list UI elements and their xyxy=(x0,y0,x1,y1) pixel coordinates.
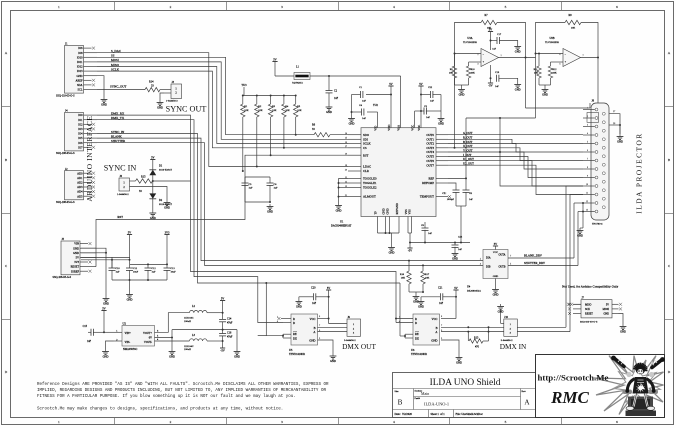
svg-text:D: D xyxy=(668,370,671,374)
svg-text:5V: 5V xyxy=(489,28,492,31)
svg-text:GND: GND xyxy=(330,360,336,363)
svg-text:1uF: 1uF xyxy=(152,271,157,274)
logo starburst xyxy=(594,356,664,415)
svg-text:12: 12 xyxy=(586,201,588,203)
svg-text:6: 6 xyxy=(559,54,561,56)
svg-text:SYNC OUT: SYNC OUT xyxy=(166,105,207,114)
wire ref caps join xyxy=(456,206,466,244)
wire U3A inverting down xyxy=(454,54,456,149)
svg-text:VCC: VCC xyxy=(310,317,316,321)
svg-text:3: 3 xyxy=(587,125,588,127)
svg-text:5V: 5V xyxy=(221,297,224,300)
svg-text:47uF: 47uF xyxy=(227,322,233,325)
svg-text:RE: RE xyxy=(293,332,297,336)
svg-text:GND: GND xyxy=(459,93,465,96)
svg-text:L3: L3 xyxy=(192,334,196,337)
ground C1 C4 xyxy=(348,95,355,126)
svg-text:8: 8 xyxy=(441,316,443,318)
svg-text:1uF: 1uF xyxy=(439,302,444,305)
svg-text:Date: 7/2/2020: Date: 7/2/2020 xyxy=(395,413,413,416)
svg-text:IOREF: IOREF xyxy=(71,270,79,273)
inductor L3 xyxy=(184,334,224,351)
svg-text:7: 7 xyxy=(319,325,321,327)
svg-text:Rev:: Rev: xyxy=(522,390,527,393)
svg-text:B: B xyxy=(398,399,403,407)
svg-text:5V: 5V xyxy=(606,303,609,306)
svg-text:9: 9 xyxy=(587,176,588,178)
svg-text:B: B xyxy=(314,326,316,330)
svg-text:33: 33 xyxy=(139,190,142,193)
svg-text:5: 5 xyxy=(505,420,507,424)
power 5V U5 xyxy=(326,287,331,297)
power 5V U3A xyxy=(488,28,493,50)
wire U2 vout+ xyxy=(155,313,190,333)
x-mark TEMPOUT xyxy=(444,193,451,198)
svg-text:RMC: RMC xyxy=(550,388,589,407)
svg-text:CS: CS xyxy=(363,146,367,150)
svg-text:R5: R5 xyxy=(297,105,301,108)
svg-text:GND: GND xyxy=(267,210,273,213)
svg-text:8: 8 xyxy=(587,167,588,169)
svg-text:REF: REF xyxy=(428,177,434,181)
svg-text:R3: R3 xyxy=(272,105,276,108)
svg-text:IO0: IO0 xyxy=(78,114,83,117)
svg-text:L2: L2 xyxy=(192,305,196,308)
resistor R6 xyxy=(312,124,348,137)
ground D2 xyxy=(152,211,154,214)
svg-text:13: 13 xyxy=(586,210,588,212)
svg-text:TN1783-4: TN1783-4 xyxy=(592,223,603,226)
wire U3B input down xyxy=(466,54,583,187)
svg-text:3V3: 3V3 xyxy=(165,231,170,234)
resistor R1 xyxy=(241,96,249,173)
svg-text:IO7: IO7 xyxy=(78,146,83,149)
power 5V sync in xyxy=(150,159,155,161)
svg-text:D1: D1 xyxy=(159,164,163,167)
svg-text:RESET: RESET xyxy=(71,266,80,269)
svg-text:U3B: U3B xyxy=(549,37,554,40)
capacitor C17 xyxy=(491,33,522,53)
svg-text:VCC: VCC xyxy=(417,125,421,131)
wire U5 RE DE bridge xyxy=(258,334,291,338)
wire pullup rail xyxy=(243,95,296,97)
svg-text:1uF: 1uF xyxy=(428,232,433,235)
ground C22 C3 xyxy=(438,111,445,125)
svg-text:R17: R17 xyxy=(425,273,430,276)
svg-text:OUT4: OUT4 xyxy=(426,150,434,154)
resistor R9 xyxy=(449,54,457,86)
svg-text:DIB: DIB xyxy=(486,266,491,269)
resistor R5 xyxy=(294,96,302,136)
svg-text:R15: R15 xyxy=(141,175,146,178)
diode D1 xyxy=(149,160,172,182)
svg-text:GND: GND xyxy=(349,122,355,125)
svg-text:1uF: 1uF xyxy=(430,100,435,103)
capacitor C4 xyxy=(351,104,378,120)
svg-text:GND: GND xyxy=(164,206,170,209)
ground C5 C6 xyxy=(269,204,271,207)
svg-text:C10: C10 xyxy=(116,267,121,270)
svg-text:10K: 10K xyxy=(272,109,277,112)
svg-text:4: 4 xyxy=(393,5,395,9)
ground for J1 GND pin xyxy=(97,76,107,107)
resistor R12 xyxy=(548,62,557,85)
svg-text:GND: GND xyxy=(438,122,444,125)
svg-text:U1: U1 xyxy=(340,220,344,223)
svg-text:-5V: -5V xyxy=(488,84,492,87)
svg-text:AD2: AD2 xyxy=(77,182,83,185)
svg-text:IO8: IO8 xyxy=(78,52,83,55)
capacitor C12 xyxy=(145,267,157,280)
resistor R8 xyxy=(565,14,581,30)
ground R16 R17 xyxy=(409,291,424,303)
svg-text:C1: C1 xyxy=(359,86,363,89)
svg-text:TU3: TU3 xyxy=(241,84,247,87)
wire U2 0v xyxy=(155,330,176,359)
wire U6 R D feeds xyxy=(395,318,413,323)
svg-text:742792651: 742792651 xyxy=(292,82,304,85)
svg-text:7: 7 xyxy=(441,325,443,327)
svg-text:R: R xyxy=(293,317,295,321)
svg-text:GND: GND xyxy=(456,361,462,364)
svg-text:R2: R2 xyxy=(258,105,262,108)
svg-text:GND: GND xyxy=(73,252,79,255)
ground J5 gnd xyxy=(81,248,109,305)
wire R7 feedback xyxy=(455,23,482,54)
svg-text:GND: GND xyxy=(603,313,609,316)
svg-text:J8: J8 xyxy=(592,100,595,103)
svg-text:1-844456-2: 1-844456-2 xyxy=(117,193,129,196)
wire U3A out to connector xyxy=(526,58,591,109)
svg-text:U5: U5 xyxy=(289,349,293,352)
wire dmx riser 1 xyxy=(566,186,583,327)
svg-text:7: 7 xyxy=(510,256,512,258)
connector J9 DMX OUT jack xyxy=(347,319,361,336)
power 5V feed U2 xyxy=(101,307,113,332)
power module U2 xyxy=(122,326,155,347)
svg-text:C20: C20 xyxy=(311,287,316,290)
svg-text:3: 3 xyxy=(477,64,479,66)
svg-text:J7: J7 xyxy=(582,297,585,300)
svg-text:VCC: VCC xyxy=(493,251,498,254)
svg-text:A: A xyxy=(524,399,530,407)
ground for J3 xyxy=(159,100,161,103)
svg-text:1uF: 1uF xyxy=(334,97,339,100)
svg-text:19: 19 xyxy=(345,154,347,156)
svg-text:DZ2680452A: DZ2680452A xyxy=(467,289,481,292)
capacitor C1 xyxy=(352,86,392,102)
svg-text:OUT7: OUT7 xyxy=(426,163,434,167)
capacitor C15 xyxy=(83,325,105,343)
svg-text:C11: C11 xyxy=(133,267,138,270)
wire U3A output xyxy=(499,57,536,59)
wire U6 RE DE bridge xyxy=(400,283,413,338)
svg-text:2: 2 xyxy=(170,420,172,424)
svg-text:U2: U2 xyxy=(123,323,127,326)
wire U6 A xyxy=(441,331,570,333)
driver U4 xyxy=(483,250,508,279)
capacitor C11 xyxy=(126,267,139,280)
svg-text:3V3: 3V3 xyxy=(74,261,79,264)
svg-text:J3: J3 xyxy=(172,81,175,84)
wire REF xyxy=(448,118,467,190)
resistor R3 xyxy=(268,96,276,157)
wire U3B inputs xyxy=(535,53,564,63)
svg-text:5: 5 xyxy=(505,5,507,9)
svg-text:A: A xyxy=(5,51,8,55)
svg-text:R: R xyxy=(415,317,417,321)
wire R_OUT xyxy=(448,139,583,143)
svg-text:L1: L1 xyxy=(296,66,300,69)
title block xyxy=(393,373,536,418)
svg-text:DMX IN: DMX IN xyxy=(500,342,527,351)
wire G_OUT xyxy=(448,134,583,136)
svg-text:11: 11 xyxy=(586,193,588,195)
svg-text:R14: R14 xyxy=(149,81,154,84)
svg-text:C2: C2 xyxy=(334,90,338,93)
svg-text:5V: 5V xyxy=(419,83,422,86)
wire J6 pin2 to ground xyxy=(130,187,171,210)
capacitor C22 xyxy=(421,86,441,111)
svg-text:R12: R12 xyxy=(553,68,558,71)
svg-text:OUT6: OUT6 xyxy=(426,159,434,163)
transceiver U6 xyxy=(413,314,440,345)
svg-text:GND: GND xyxy=(498,310,504,313)
svg-text:2: 2 xyxy=(477,54,478,56)
svg-text:1uF: 1uF xyxy=(495,85,499,88)
svg-text:R7: R7 xyxy=(484,14,488,17)
svg-text:VCC: VCC xyxy=(410,125,414,131)
connector J8 ILDA DB25 xyxy=(591,103,609,220)
svg-text:OUT0: OUT0 xyxy=(426,133,434,137)
svg-text:IO2: IO2 xyxy=(78,123,83,126)
svg-text:C15: C15 xyxy=(83,325,88,328)
svg-text:2: 2 xyxy=(480,259,481,261)
svg-text:R4: R4 xyxy=(285,105,289,108)
wire U3B output xyxy=(581,57,600,104)
svg-text:GND: GND xyxy=(493,275,499,278)
svg-text:http://Scrootch.Me: http://Scrootch.Me xyxy=(538,373,609,383)
connector J5 (Arduino power header) xyxy=(53,238,97,279)
wire VSS to -5V xyxy=(408,233,470,244)
svg-text:C21: C21 xyxy=(438,287,443,290)
svg-text:IO13: IO13 xyxy=(77,70,83,73)
wire shutter drv riser xyxy=(577,212,579,266)
wire 0V rail xyxy=(172,329,240,359)
svg-text:1: 1 xyxy=(587,108,588,110)
wire BLANK xyxy=(97,138,483,262)
svg-text:VIN: VIN xyxy=(74,243,79,246)
svg-text:1uF: 1uF xyxy=(116,271,121,274)
svg-text:CLR: CLR xyxy=(363,169,369,173)
resistor R7 xyxy=(481,14,497,30)
svg-text:GND: GND xyxy=(169,355,175,358)
svg-text:IO3: IO3 xyxy=(78,128,83,131)
capacitor C19 on V- xyxy=(488,65,521,91)
wire U2 vin- gnd xyxy=(102,341,113,358)
svg-text:0V: 0V xyxy=(149,337,152,340)
capacitor C2 xyxy=(326,76,339,114)
wire U1_OUT xyxy=(448,161,583,186)
svg-text:-5V: -5V xyxy=(220,349,224,352)
svg-text:OUTB: OUTB xyxy=(498,266,505,269)
svg-text:TLV2362IDR: TLV2362IDR xyxy=(545,41,559,44)
capacitor C14 xyxy=(219,313,233,330)
svg-text:TP: TP xyxy=(373,211,377,215)
svg-text:AD3: AD3 xyxy=(77,186,83,189)
svg-text:5V: 5V xyxy=(494,243,497,246)
svg-text:47uF: 47uF xyxy=(227,336,233,339)
op-amp U3A xyxy=(463,37,502,67)
svg-text:470: 470 xyxy=(475,346,480,349)
svg-text:FITNESS FOR A PARTICULAR PURPO: FITNESS FOR A PARTICULAR PURPOSE. If you… xyxy=(37,394,296,399)
svg-text:10uF: 10uF xyxy=(171,271,177,274)
svg-text:D2: D2 xyxy=(159,199,163,202)
svg-text:IO4: IO4 xyxy=(78,133,83,136)
capacitor C16 xyxy=(219,330,233,341)
svg-text:GND: GND xyxy=(620,330,626,333)
svg-text:33: 33 xyxy=(312,128,315,131)
power 5V L1 feed xyxy=(272,58,294,76)
svg-text:SS16-E3/61T: SS16-E3/61T xyxy=(159,203,173,206)
svg-text:10K: 10K xyxy=(401,277,406,280)
testpoint TU2 / VIO xyxy=(373,104,378,128)
svg-text:SCL: SCL xyxy=(77,89,82,92)
wire DMX_TX xyxy=(97,120,283,323)
svg-text:Reference Designs ARE PROVIDED: Reference Designs ARE PROVIDED "AS IS" A… xyxy=(37,382,329,387)
svg-text:IO11: IO11 xyxy=(77,61,83,64)
svg-text:GND: GND xyxy=(389,251,395,254)
capacitor C13 xyxy=(164,267,177,280)
svg-text:C23: C23 xyxy=(458,236,463,239)
svg-text:GND: GND xyxy=(452,257,458,260)
svg-text:REFGND: REFGND xyxy=(395,203,399,214)
svg-text:B: B xyxy=(5,158,8,162)
svg-text:5V: 5V xyxy=(327,287,330,290)
x-mark U5 R pin xyxy=(278,317,292,320)
svg-text:MISO: MISO xyxy=(585,303,592,306)
svg-text:RESET: RESET xyxy=(585,313,593,316)
svg-text:SYNC IN: SYNC IN xyxy=(104,164,137,173)
svg-text:TEMPOUT: TEMPOUT xyxy=(420,195,434,199)
wire TOGGLE gnd xyxy=(335,179,348,213)
svg-text:1: 1 xyxy=(58,420,60,424)
svg-text:100uH: 100uH xyxy=(184,348,191,351)
svg-text:7: 7 xyxy=(583,55,585,57)
svg-text:GND: GND xyxy=(309,339,315,343)
svg-text:GND: GND xyxy=(542,93,548,96)
svg-text:1: 1 xyxy=(58,5,60,9)
wire /RST xyxy=(96,155,348,266)
svg-text:VCC: VCC xyxy=(432,317,438,321)
wire SYNC_IN branch U5 enable xyxy=(258,283,267,336)
svg-text:ILDA UNO Shield: ILDA UNO Shield xyxy=(430,378,501,388)
svg-text:C: C xyxy=(5,264,8,268)
svg-text:1uF: 1uF xyxy=(469,198,473,201)
svg-text:GND: GND xyxy=(150,217,156,220)
wire J10 pin1 gnd xyxy=(497,304,504,323)
svg-text:5: 5 xyxy=(559,64,561,66)
svg-text:10K: 10K xyxy=(571,27,576,30)
svg-text:TOGGLE2: TOGGLE2 xyxy=(363,186,377,190)
svg-text:1uF: 1uF xyxy=(362,100,367,103)
capacitor C6 xyxy=(267,177,279,202)
svg-text:C19: C19 xyxy=(495,71,500,74)
svg-text:VIN+: VIN+ xyxy=(125,332,132,335)
svg-text:SHUTTER_DRV: SHUTTER_DRV xyxy=(524,261,546,265)
svg-text:GND: GND xyxy=(157,106,163,109)
resistor R16 xyxy=(400,261,411,292)
wire U5 VCC node xyxy=(318,296,330,320)
wire X_OUT xyxy=(448,148,583,161)
svg-text:GND: GND xyxy=(515,50,521,53)
svg-text:7: 7 xyxy=(587,159,588,161)
wire U5 D pin xyxy=(283,322,291,324)
svg-text:10K: 10K xyxy=(449,72,453,75)
svg-text:GND: GND xyxy=(493,293,499,296)
svg-text:R1: R1 xyxy=(244,105,248,108)
wire U5 B xyxy=(318,326,348,328)
connector J4 (Arduino digital header) xyxy=(56,110,97,155)
svg-text:SSQ-108-03-G-S: SSQ-108-03-G-S xyxy=(56,201,75,204)
svg-text:ILDA PROJECTOR: ILDA PROJECTOR xyxy=(635,132,644,213)
svg-text:3: 3 xyxy=(281,420,283,424)
svg-text:VAA: VAA xyxy=(396,124,400,131)
power 3V3 rail symbol xyxy=(164,231,170,264)
wire 5V rail xyxy=(81,257,130,268)
svg-text:20: 20 xyxy=(345,169,348,171)
power VCC U4 xyxy=(493,243,498,250)
svg-text:GND: GND xyxy=(77,75,83,78)
svg-text:10K: 10K xyxy=(297,109,302,112)
svg-text:27: 27 xyxy=(613,111,616,113)
svg-text:THVD1410DR: THVD1410DR xyxy=(411,353,427,356)
svg-text:1uF: 1uF xyxy=(426,116,431,119)
connector J6 sync in jack xyxy=(119,178,130,191)
svg-text:GND: GND xyxy=(385,208,389,214)
svg-text:TOGGLE1: TOGGLE1 xyxy=(363,181,377,185)
svg-text:4: 4 xyxy=(587,133,588,135)
svg-text:NMA0505SC: NMA0505SC xyxy=(123,348,138,351)
svg-text:VOUT-: VOUT- xyxy=(144,341,152,344)
svg-text:4: 4 xyxy=(393,420,395,424)
svg-text:U4: U4 xyxy=(467,285,471,288)
svg-text:REFCMP: REFCMP xyxy=(422,181,434,185)
svg-text:AD1: AD1 xyxy=(77,177,83,180)
svg-text:SYNC_OUT: SYNC_OUT xyxy=(110,84,126,88)
power 5V out xyxy=(220,297,225,312)
svg-text:GND: GND xyxy=(103,302,109,305)
wire U6 GND xyxy=(441,340,462,364)
svg-text:GND: GND xyxy=(431,339,437,343)
resistor R4 xyxy=(282,96,290,149)
wire U2_OUT xyxy=(448,165,583,194)
wire blank drv riser xyxy=(573,203,575,258)
svg-text:5: 5 xyxy=(510,263,512,265)
svg-text:TOGGLE0: TOGGLE0 xyxy=(363,177,377,181)
svg-text:DMX OUT: DMX OUT xyxy=(342,342,376,351)
svg-text:B: B xyxy=(436,326,438,330)
svg-text:10K: 10K xyxy=(285,109,290,112)
svg-text:C3: C3 xyxy=(424,105,428,108)
svg-text:1uF: 1uF xyxy=(492,48,496,51)
capacitor C23 xyxy=(452,236,463,261)
svg-text:6: 6 xyxy=(616,5,618,9)
svg-text:ARDUINO INTERFACE: ARDUINO INTERFACE xyxy=(85,115,94,201)
svg-text:GND: GND xyxy=(418,305,424,308)
svg-text:5V: 5V xyxy=(102,307,105,310)
logo box xyxy=(536,355,665,418)
